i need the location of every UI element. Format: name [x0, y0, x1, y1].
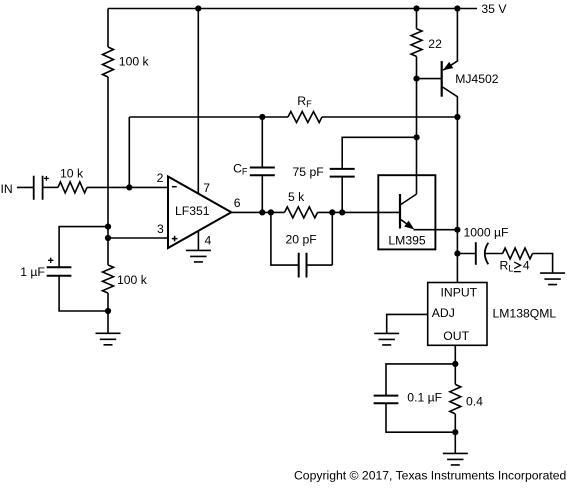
svg-text:75 pF: 75 pF	[293, 165, 324, 179]
wire: cap to R3	[43, 186, 58, 188]
wire: top 35V rail	[108, 8, 477, 10]
node: CF bottom junction	[259, 209, 265, 215]
box LM395	[378, 175, 435, 249]
svg-text:1000 µF: 1000 µF	[464, 225, 509, 239]
svg-text:5 k: 5 k	[288, 190, 305, 204]
resistor R3 10 k	[58, 182, 87, 193]
node: 1000uF branch junction	[454, 250, 460, 256]
wire: LM395 emitter out	[414, 229, 458, 231]
svg-text:Copyright © 2017, Texas Instru: Copyright © 2017, Texas Instruments Inco…	[294, 469, 566, 483]
resistor R2 100 k (bottom)	[103, 265, 114, 293]
resistor R1 100 k (top)	[103, 47, 114, 77]
ground (output)	[443, 453, 468, 465]
node: pin3 junction	[105, 235, 111, 241]
ground (ADJ)	[374, 333, 399, 345]
svg-text:CF: CF	[233, 161, 248, 176]
svg-text:LM395: LM395	[388, 233, 425, 247]
node: RF right junction	[454, 114, 460, 120]
svg-text:4: 4	[205, 234, 212, 248]
svg-text:RL: RL	[500, 258, 514, 273]
transistor Q1 MJ4502	[417, 78, 442, 80]
op-amp plus sign	[172, 236, 178, 242]
capacitor C3 20 pF	[299, 253, 307, 278]
svg-text:2: 2	[157, 171, 164, 185]
svg-text:0.4: 0.4	[466, 395, 483, 409]
svg-text:0.1 µF: 0.1 µF	[407, 390, 442, 404]
node: feedback junction on pin2 wire	[126, 184, 132, 190]
node: OUT junction top	[452, 361, 458, 367]
wire: pin 6 output	[231, 211, 400, 213]
node: emitter/right-rail junction	[454, 227, 460, 233]
svg-text:6: 6	[234, 196, 241, 210]
svg-text:LM138QML: LM138QML	[493, 306, 557, 320]
resistor R5 22	[411, 29, 422, 57]
svg-text:RF: RF	[297, 94, 312, 109]
wire: feedback vertical	[128, 117, 130, 187]
svg-text:LF351: LF351	[175, 204, 210, 218]
wire: left vertical rail	[107, 9, 109, 334]
wire: pin 7 supply line	[197, 9, 199, 194]
ground (op-amp pin 4)	[186, 250, 211, 262]
svg-text:4: 4	[523, 258, 530, 272]
resistor R6 RL	[503, 248, 533, 259]
svg-text:OUT: OUT	[443, 329, 469, 343]
node: 75pF bottom junction	[339, 209, 345, 215]
wire: pin 4 to ground	[197, 231, 199, 250]
node: bottom junction of 1uF/100k	[105, 308, 111, 314]
svg-text:ADJ: ADJ	[432, 306, 455, 320]
svg-text:20 pF: 20 pF	[286, 233, 317, 247]
wire: 75pF branch	[342, 137, 416, 212]
wire: RL to ground	[533, 254, 553, 274]
wire: 1uF branch	[59, 227, 108, 311]
capacitor C5 1000 uF (polarized)	[457, 253, 475, 255]
op-amp minus sign	[172, 186, 177, 188]
node: CF top junction	[259, 114, 265, 120]
node: 1uF branch junction	[105, 224, 111, 230]
wire: 20pF branch	[271, 212, 332, 265]
node: OUT junction bottom	[452, 429, 458, 435]
svg-text:3: 3	[157, 222, 164, 236]
wire: OUT down	[454, 345, 456, 453]
node: top-left junction to pin7 line	[195, 5, 201, 11]
wire: RF feedback horizontal	[129, 116, 457, 118]
node: MJ4502 base junction	[413, 76, 419, 82]
node: 22-ohm branch junction on 35V rail	[413, 5, 419, 11]
capacitor C4 75 pF	[330, 169, 355, 177]
node: 20pF right junction	[329, 209, 335, 215]
wire: pin 3	[108, 237, 168, 239]
resistor R7 0.4	[450, 384, 461, 414]
svg-text:35 V: 35 V	[481, 2, 507, 16]
svg-text:INPUT: INPUT	[441, 286, 478, 300]
node: MJ4502 emitter junction on 35V rail	[454, 5, 460, 11]
wire: 0.1uF branch	[386, 364, 455, 432]
svg-text:7: 7	[203, 181, 210, 195]
wire: R3 to op-amp pin 2	[87, 186, 168, 188]
svg-text:22: 22	[428, 37, 442, 51]
box U2 LM138QML	[428, 283, 487, 346]
capacitor CF	[261, 117, 263, 212]
capacitor C1 (input, polarized)	[34, 176, 43, 200]
node: 75pF top junction	[414, 134, 420, 140]
wire: ADJ to ground	[387, 314, 428, 333]
svg-text:100 k: 100 k	[117, 273, 148, 287]
wire: IN to input cap	[17, 186, 33, 188]
svg-text:IN: IN	[1, 182, 13, 196]
ground (left rail)	[96, 333, 121, 345]
wire: 22 branch / LM395 collector line	[416, 9, 418, 195]
svg-text:MJ4502: MJ4502	[455, 72, 499, 86]
capacitor C6 0.1 uF	[374, 396, 399, 404]
resistor R4 5 k	[285, 207, 318, 218]
ground (RL)	[540, 273, 565, 285]
node: 20pF left junction	[268, 209, 274, 215]
svg-text:10 k: 10 k	[60, 166, 84, 180]
op-amp U1 LF351	[168, 177, 231, 249]
capacitor C2 1 uF	[47, 267, 72, 275]
svg-text:100 k: 100 k	[119, 54, 150, 68]
transistor Q2 (LM395)	[399, 194, 401, 229]
svg-text:1 µF: 1 µF	[20, 265, 45, 279]
resistor RF	[288, 112, 322, 123]
